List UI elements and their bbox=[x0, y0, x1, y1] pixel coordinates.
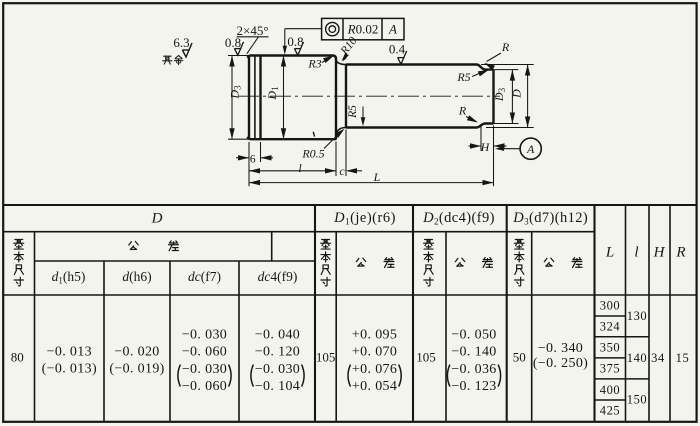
svg-text:130: 130 bbox=[627, 309, 648, 323]
svg-text:dc4(f9): dc4(f9) bbox=[258, 269, 298, 284]
svg-text:R5: R5 bbox=[347, 105, 359, 119]
svg-text:150: 150 bbox=[627, 393, 648, 407]
svg-text:−0. 013: −0. 013 bbox=[47, 345, 92, 360]
svg-text:80: 80 bbox=[11, 350, 24, 365]
svg-text:H: H bbox=[653, 245, 666, 261]
svg-text:0.4: 0.4 bbox=[389, 42, 406, 57]
svg-text:D: D bbox=[510, 89, 524, 99]
svg-text:H: H bbox=[480, 140, 491, 154]
svg-text:−0. 036: −0. 036 bbox=[451, 362, 496, 377]
svg-text:−0. 050: −0. 050 bbox=[451, 327, 496, 342]
svg-text:(−0. 250): (−0. 250) bbox=[533, 356, 588, 371]
svg-text:−0. 104: −0. 104 bbox=[255, 379, 300, 394]
svg-text:D2(dc4)(f9): D2(dc4)(f9) bbox=[422, 210, 495, 227]
svg-text:−0. 140: −0. 140 bbox=[451, 345, 496, 360]
svg-text:A: A bbox=[388, 22, 397, 37]
svg-text:−0. 060: −0. 060 bbox=[182, 379, 227, 394]
svg-text:d1(h5): d1(h5) bbox=[52, 269, 86, 286]
svg-text:−0. 340: −0. 340 bbox=[538, 341, 583, 356]
svg-text:34: 34 bbox=[651, 351, 665, 365]
svg-text:−0. 040: −0. 040 bbox=[255, 327, 300, 342]
svg-text:350: 350 bbox=[600, 341, 621, 355]
svg-text:140: 140 bbox=[627, 351, 648, 365]
svg-text:dc(f7): dc(f7) bbox=[188, 269, 221, 284]
svg-text:(−0. 019): (−0. 019) bbox=[109, 362, 164, 377]
svg-text:A: A bbox=[526, 142, 535, 156]
svg-text:−0. 060: −0. 060 bbox=[182, 345, 227, 360]
svg-text:+0. 070: +0. 070 bbox=[352, 345, 397, 360]
svg-text:R: R bbox=[458, 104, 467, 118]
svg-text:L: L bbox=[373, 170, 381, 184]
svg-text:D: D bbox=[151, 211, 163, 227]
svg-text:−0. 030: −0. 030 bbox=[182, 362, 227, 377]
svg-text:400: 400 bbox=[600, 383, 621, 397]
svg-text:105: 105 bbox=[316, 350, 336, 365]
svg-text:105: 105 bbox=[416, 350, 436, 365]
svg-text:R5: R5 bbox=[456, 70, 470, 84]
svg-text:R3: R3 bbox=[307, 57, 321, 71]
svg-text:324: 324 bbox=[600, 320, 621, 334]
svg-text:+0. 054: +0. 054 bbox=[352, 379, 397, 394]
svg-text:−0. 030: −0. 030 bbox=[255, 362, 300, 377]
svg-text:D3(d7)(h12): D3(d7)(h12) bbox=[512, 210, 588, 227]
svg-text:−0. 030: −0. 030 bbox=[182, 327, 227, 342]
svg-text:R: R bbox=[675, 245, 685, 261]
svg-text:−0. 123: −0. 123 bbox=[451, 379, 496, 394]
svg-text:15: 15 bbox=[676, 351, 690, 365]
svg-text:R: R bbox=[501, 40, 510, 54]
svg-text:R0.5: R0.5 bbox=[301, 147, 324, 161]
svg-text:425: 425 bbox=[600, 404, 621, 418]
svg-text:300: 300 bbox=[600, 299, 621, 313]
svg-text:6.3: 6.3 bbox=[173, 35, 189, 50]
svg-text:0.8: 0.8 bbox=[225, 35, 241, 50]
svg-text:R0.02: R0.02 bbox=[347, 22, 379, 37]
svg-text:l: l bbox=[634, 245, 638, 261]
svg-text:(−0. 013): (−0. 013) bbox=[42, 362, 97, 377]
svg-text:+0. 095: +0. 095 bbox=[352, 327, 397, 342]
svg-text:D1(je)(r6): D1(je)(r6) bbox=[333, 210, 396, 227]
svg-text:50: 50 bbox=[513, 350, 526, 365]
svg-text:L: L bbox=[605, 245, 614, 261]
svg-text:2×45°: 2×45° bbox=[236, 23, 268, 38]
svg-text:c: c bbox=[339, 164, 345, 178]
svg-text:6: 6 bbox=[250, 153, 256, 165]
svg-text:−0. 120: −0. 120 bbox=[255, 345, 300, 360]
svg-text:d(h6): d(h6) bbox=[122, 269, 151, 284]
svg-text:375: 375 bbox=[600, 362, 621, 376]
svg-text:−0. 020: −0. 020 bbox=[114, 345, 159, 360]
svg-text:+0. 076: +0. 076 bbox=[352, 362, 397, 377]
